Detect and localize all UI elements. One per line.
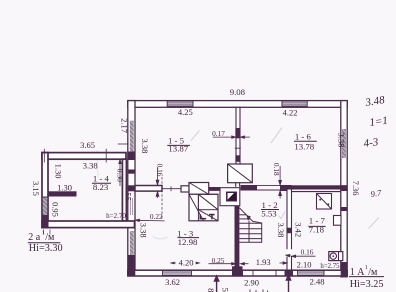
svg-text:3.38: 3.38 <box>83 160 98 170</box>
svg-text:1.93: 1.93 <box>256 257 271 267</box>
svg-text:2 а: 2 а <box>28 232 41 243</box>
svg-text:3.38: 3.38 <box>140 138 150 153</box>
svg-text:3.38: 3.38 <box>337 133 347 148</box>
svg-text:5.53: 5.53 <box>261 209 277 219</box>
svg-text:9.7: 9.7 <box>370 187 383 198</box>
svg-text:4.20: 4.20 <box>179 257 194 267</box>
svg-text:Hi=3.25: Hi=3.25 <box>350 279 384 290</box>
svg-text:2.17: 2.17 <box>120 118 130 133</box>
svg-text:4.25: 4.25 <box>178 107 193 117</box>
svg-text:2.55: 2.55 <box>124 186 134 201</box>
svg-text:2.48: 2.48 <box>310 276 325 286</box>
svg-text:0.95: 0.95 <box>51 202 61 217</box>
svg-text:3.48: 3.48 <box>364 94 386 109</box>
svg-text:4-3: 4-3 <box>363 136 380 150</box>
svg-text:3.38: 3.38 <box>139 223 149 238</box>
svg-text:13.87: 13.87 <box>168 143 188 153</box>
svg-text:h=2.70: h=2.70 <box>106 212 126 220</box>
svg-text:3.38: 3.38 <box>276 223 286 238</box>
svg-text:8: 8 <box>206 288 216 292</box>
svg-text:12.98: 12.98 <box>178 237 198 247</box>
svg-text:9.08: 9.08 <box>230 87 246 97</box>
svg-text:0.16: 0.16 <box>155 164 164 177</box>
svg-text:4.22: 4.22 <box>283 108 298 118</box>
svg-text:0.18: 0.18 <box>272 163 281 176</box>
svg-text:13.78: 13.78 <box>294 141 314 151</box>
svg-text:Hi=3.30: Hi=3.30 <box>29 243 63 254</box>
svg-text:2.90: 2.90 <box>244 278 259 288</box>
svg-text:1=1: 1=1 <box>369 115 389 129</box>
svg-text:3.15: 3.15 <box>31 181 41 196</box>
svg-text:0.17: 0.17 <box>212 129 225 138</box>
svg-text:0.16: 0.16 <box>301 248 314 257</box>
svg-text:1.30: 1.30 <box>54 164 64 179</box>
svg-text:/м: /м <box>45 232 55 243</box>
svg-text:2.10: 2.10 <box>297 260 312 270</box>
svg-text:1.30: 1.30 <box>57 183 72 193</box>
svg-text:1 - 6: 1 - 6 <box>295 132 312 142</box>
svg-text:h=2.75: h=2.75 <box>320 263 340 270</box>
svg-text:0.22: 0.22 <box>150 212 163 221</box>
svg-text:0.25: 0.25 <box>212 256 225 265</box>
svg-text:7.36: 7.36 <box>351 181 361 196</box>
svg-text:3.42: 3.42 <box>293 222 303 237</box>
svg-text:3.62: 3.62 <box>165 277 180 287</box>
svg-text:3.65: 3.65 <box>80 140 95 150</box>
svg-text:0.30: 0.30 <box>116 169 125 182</box>
svg-text:5: 5 <box>220 288 230 292</box>
